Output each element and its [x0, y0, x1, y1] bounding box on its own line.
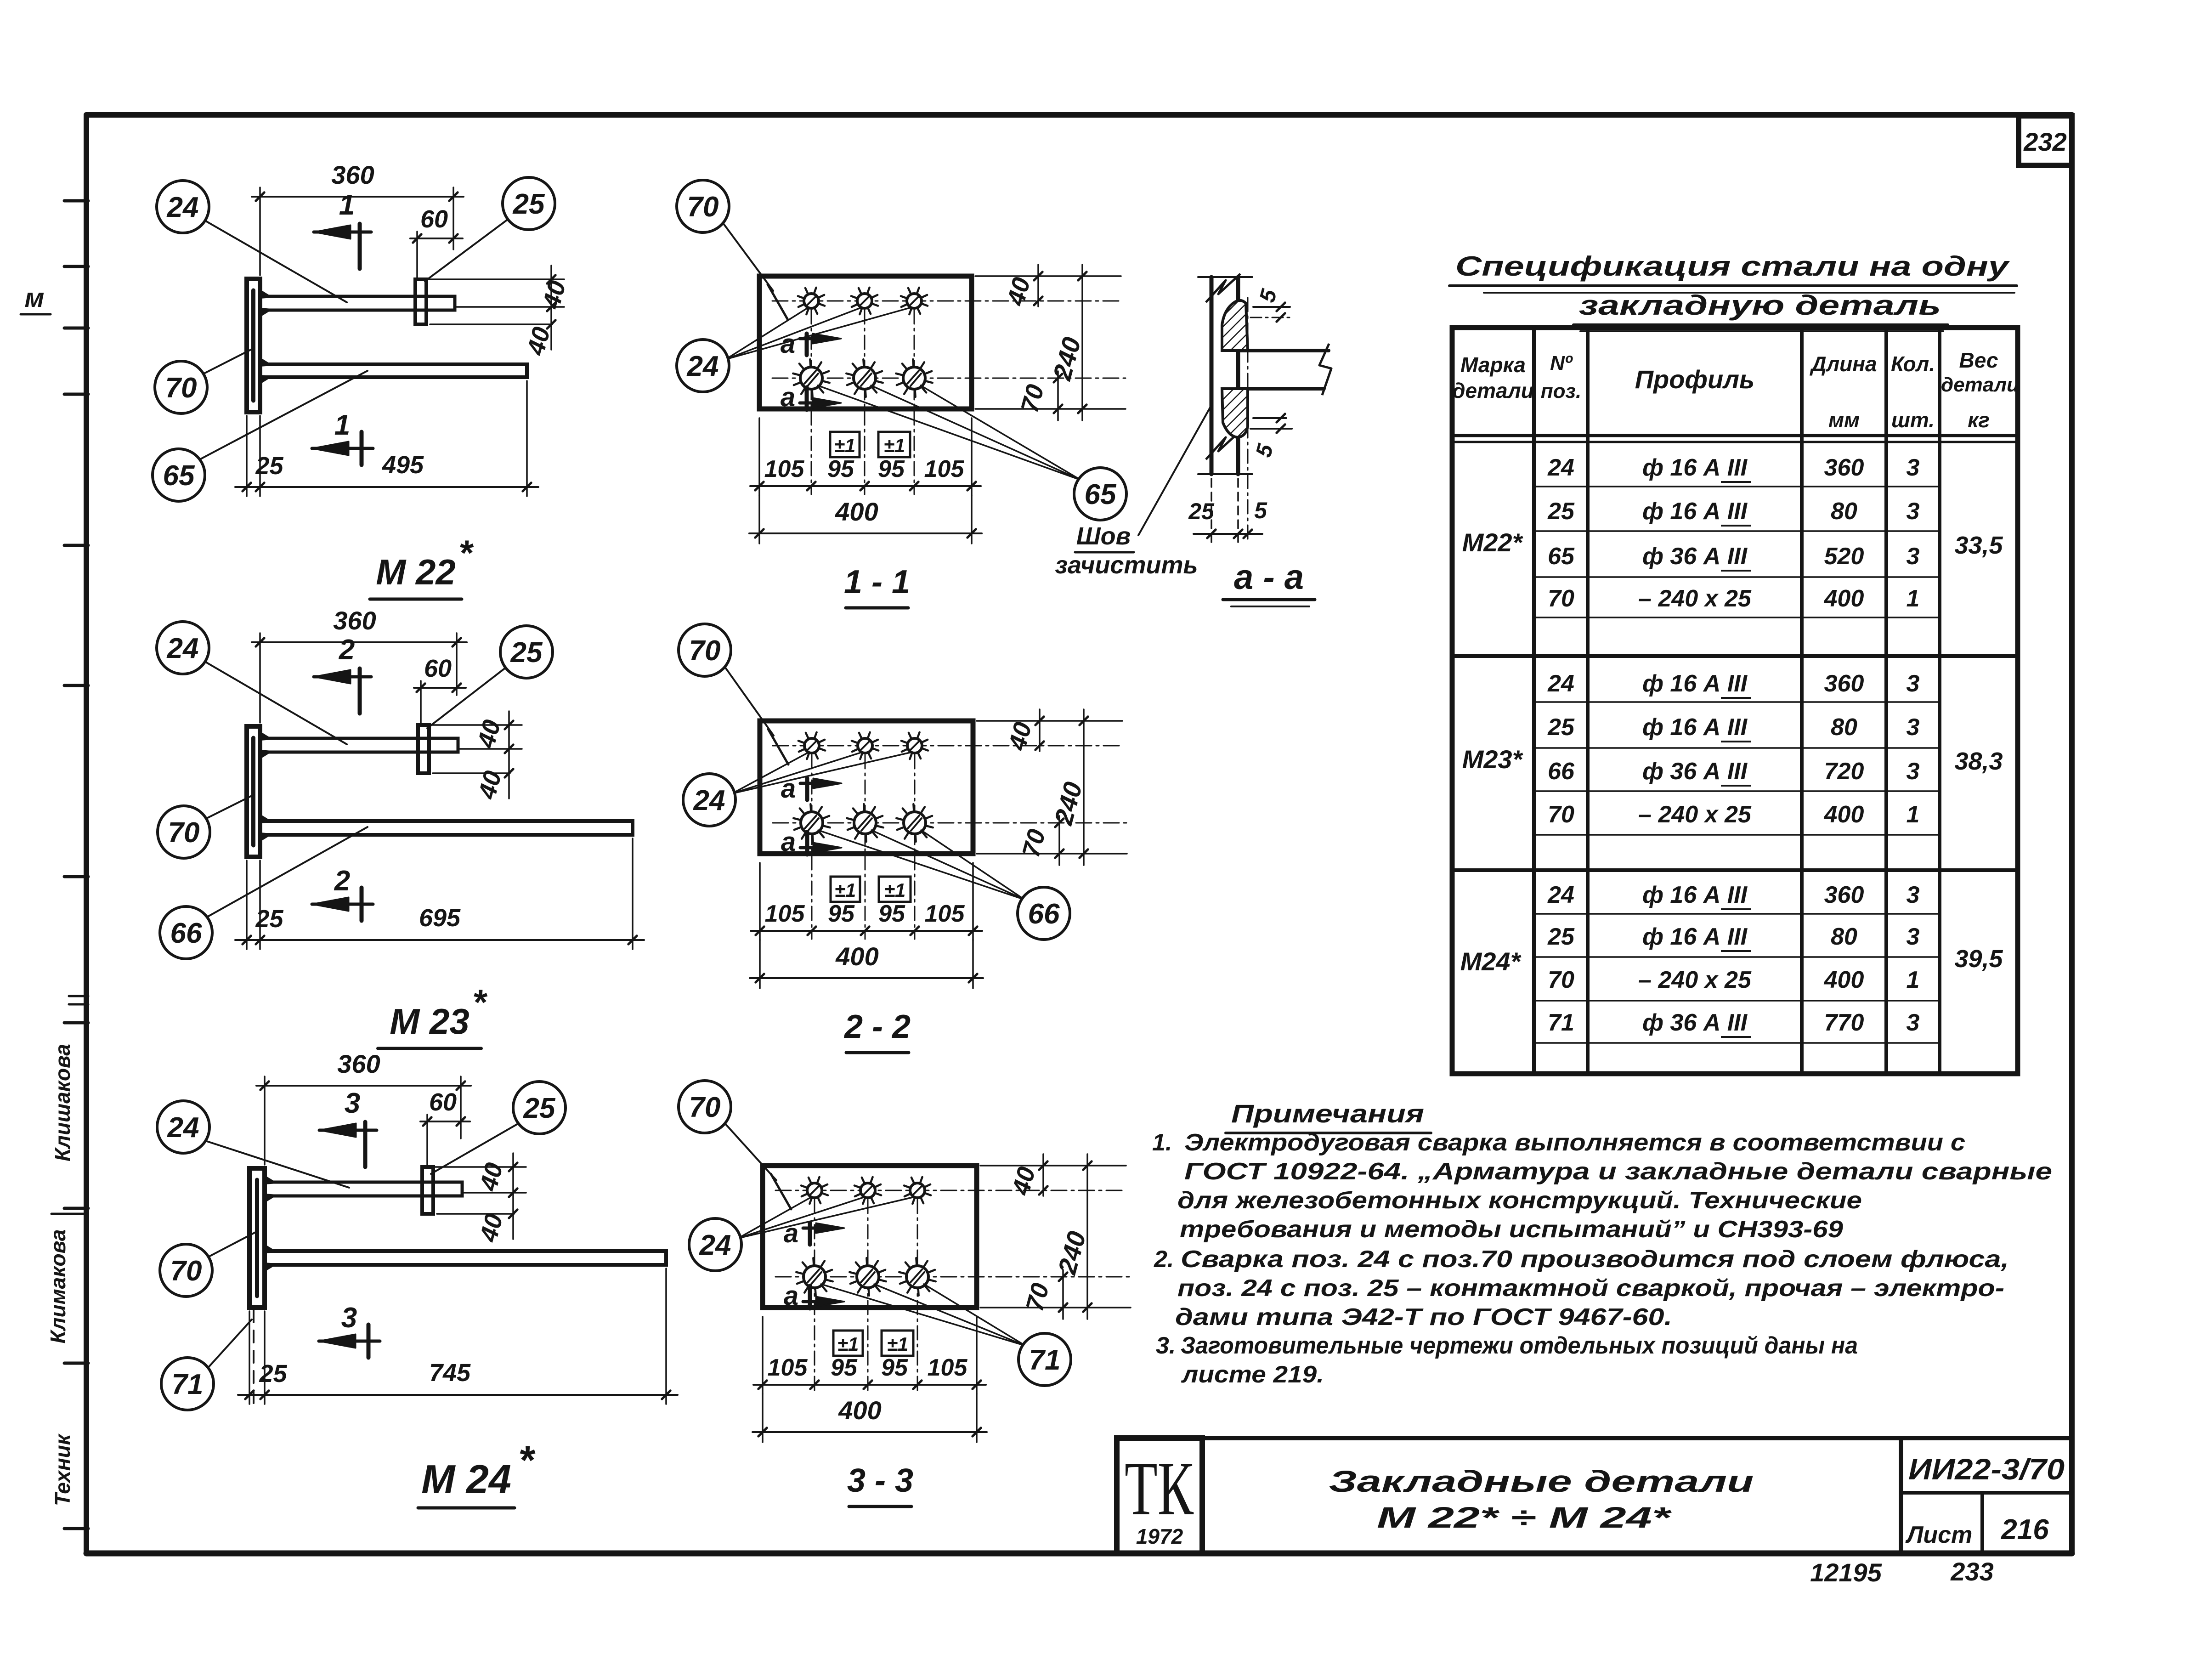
leaders (2-2) — [724, 666, 774, 736]
svg-text:±1: ±1 — [837, 1333, 859, 1355]
svg-text:±1: ±1 — [887, 1333, 908, 1355]
balloon 70 — [679, 624, 731, 676]
svg-text:24: 24 — [1547, 670, 1574, 697]
svg-text:25: 25 — [255, 905, 283, 933]
svg-text:25: 25 — [255, 452, 283, 480]
svg-text:2: 2 — [339, 634, 355, 666]
anchor bar 24 (M23*) — [260, 738, 458, 752]
svg-text:1: 1 — [1907, 967, 1920, 993]
table group separators — [1452, 654, 2018, 658]
svg-text:3: 3 — [345, 1087, 360, 1119]
svg-text:80: 80 — [1831, 498, 1857, 525]
svg-text:33,5: 33,5 — [1954, 532, 2003, 559]
svg-text:дами типа Э42-Т по ГОСТ 9467-6: дами типа Э42-Т по ГОСТ 9467-60. — [1175, 1304, 1672, 1331]
balloon 71 — [161, 1358, 214, 1410]
svg-text:12195: 12195 — [1810, 1558, 1882, 1587]
weld lower (a-a) — [1222, 389, 1248, 437]
svg-text:М 22* ÷ М 24*: М 22* ÷ М 24* — [1377, 1501, 1672, 1534]
dimension 400 (3-3) — [762, 1394, 764, 1442]
base plate 70 outline (3-3) — [763, 1166, 977, 1308]
svg-text:65: 65 — [1085, 479, 1117, 510]
svg-text:95: 95 — [881, 1354, 908, 1381]
svg-text:25: 25 — [1547, 714, 1575, 741]
balloon 24 — [157, 1101, 209, 1153]
left margin ticks — [64, 199, 88, 203]
hidden anchor 71 dashed line (M24) — [253, 1310, 255, 1404]
svg-text:70: 70 — [689, 1092, 721, 1123]
balloon 66 — [1018, 887, 1070, 940]
small plate 25 (M24*) — [422, 1167, 433, 1214]
svg-text:Шов: Шов — [1076, 522, 1131, 550]
plate 70 (M24*) — [249, 1168, 265, 1308]
anchor spots bottom row (2-2) — [801, 812, 823, 834]
svg-text:±1: ±1 — [884, 879, 905, 901]
svg-text:закладную деталь: закладную деталь — [1579, 290, 1941, 321]
svg-text:105: 105 — [928, 1354, 968, 1381]
dimension 360 (M23*) — [259, 633, 261, 723]
svg-text:38,3: 38,3 — [1954, 748, 2003, 775]
anchor bar 24 (M22*) — [260, 296, 455, 310]
balloon 24 — [677, 340, 729, 392]
svg-text:Вес: Вес — [1959, 348, 1998, 372]
svg-text:зачистить: зачистить — [1055, 551, 1198, 579]
svg-text:кг: кг — [1968, 408, 1990, 432]
svg-text:24: 24 — [167, 633, 199, 664]
svg-text:70: 70 — [170, 1255, 202, 1287]
svg-text:детали: детали — [1452, 379, 1534, 402]
signature separator — [51, 1213, 86, 1215]
svg-text:360: 360 — [1824, 882, 1864, 908]
svg-text:5: 5 — [1254, 498, 1267, 523]
svg-text:М23*: М23* — [1462, 745, 1523, 774]
svg-text:216: 216 — [2001, 1514, 2049, 1546]
svg-text:695: 695 — [419, 904, 461, 932]
svg-text:3: 3 — [1907, 882, 1920, 908]
svg-text:Спецификация стали на одну: Спецификация стали на одну — [1455, 251, 2010, 282]
svg-text:ИИ22-3/70: ИИ22-3/70 — [1908, 1453, 2065, 1486]
svg-text:М 23: М 23 — [390, 1001, 469, 1042]
svg-text:80: 80 — [1831, 714, 1857, 741]
svg-text:Длина: Длина — [1809, 352, 1877, 376]
svg-text:1: 1 — [339, 189, 355, 221]
title block dividers — [1899, 1438, 1903, 1553]
svg-text:3: 3 — [1907, 923, 1920, 950]
svg-text:Кол.: Кол. — [1891, 352, 1935, 376]
svg-text:71: 71 — [172, 1369, 204, 1400]
table thin row lines — [1534, 486, 1940, 487]
svg-text:400: 400 — [1824, 801, 1864, 828]
svg-text:25: 25 — [1547, 923, 1575, 950]
centerlines (3-3) — [775, 1190, 1126, 1191]
leaders (3-3) — [724, 1122, 776, 1180]
anchor spots bottom row (1-1) — [800, 367, 822, 389]
svg-text:а - а: а - а — [1234, 558, 1304, 597]
svg-text:±1: ±1 — [834, 435, 855, 456]
svg-text:a: a — [784, 1281, 798, 1311]
plate 70 (M23*) — [247, 726, 260, 857]
sheet number box 232 — [2019, 116, 2072, 165]
svg-text:ГОСТ 10922-64. „Арматура и зак: ГОСТ 10922-64. „Арматура и закладные дет… — [1184, 1158, 2052, 1185]
svg-text:95: 95 — [878, 900, 905, 927]
svg-text:25: 25 — [523, 1093, 556, 1124]
base plate 70 outline (1-1) — [759, 276, 972, 409]
svg-text:3: 3 — [1907, 758, 1920, 785]
plate edges (a-a) — [1210, 277, 1214, 474]
svg-text:ф 36 А III: ф 36 А III — [1642, 1009, 1748, 1036]
svg-text:400: 400 — [1824, 967, 1864, 993]
svg-text:– 240 x 25: – 240 x 25 — [1638, 585, 1752, 612]
svg-text:*: * — [458, 532, 474, 573]
svg-text:95: 95 — [878, 456, 905, 482]
anchor spots pos 24 (1-1) — [804, 294, 819, 308]
svg-text:65: 65 — [1548, 543, 1575, 570]
svg-text:М24*: М24* — [1460, 947, 1522, 976]
weld face dash line (a-a) — [1247, 298, 1249, 542]
svg-text:2.: 2. — [1154, 1246, 1174, 1273]
anchor spots pos 24 (2-2) — [804, 738, 819, 753]
svg-text:24: 24 — [687, 351, 719, 382]
dimensions 105/95/95/105 (1-1) — [758, 418, 760, 495]
dimensions 40/70/240 (3-3) — [980, 1165, 1126, 1167]
dimensions 25/5 (a-a) — [1211, 479, 1212, 543]
svg-text:– 240 x 25: – 240 x 25 — [1638, 967, 1752, 993]
dimensions 40/70/240 (2-2) — [977, 720, 1122, 722]
leader lines (M22*) — [205, 221, 347, 302]
balloon 25 — [500, 626, 553, 678]
svg-text:a: a — [781, 382, 795, 412]
svg-text:±1: ±1 — [835, 879, 856, 901]
svg-text:360: 360 — [337, 1049, 380, 1078]
centerlines (1-1) — [772, 300, 1121, 302]
margin mark || — [69, 995, 88, 997]
svg-text:1: 1 — [1907, 585, 1920, 612]
svg-text:400: 400 — [835, 497, 878, 526]
svg-text:770: 770 — [1824, 1009, 1864, 1036]
balloon 70 — [158, 806, 210, 858]
dimensions 40/40 (M22*) — [428, 278, 564, 280]
svg-text:требования и методы испытаний”: требования и методы испытаний” и СН393-6… — [1180, 1216, 1843, 1243]
svg-text:400: 400 — [1824, 585, 1864, 612]
dimension 360 (M22*) — [259, 187, 261, 275]
svg-text:95: 95 — [831, 1354, 858, 1381]
svg-text:400: 400 — [835, 942, 878, 971]
svg-text:ТК: ТК — [1125, 1446, 1194, 1531]
leader lines (M23*) — [205, 662, 347, 744]
svg-text:105: 105 — [768, 1354, 808, 1381]
svg-text:39,5: 39,5 — [1954, 945, 2003, 973]
svg-text:24: 24 — [1547, 454, 1574, 481]
svg-text:71: 71 — [1029, 1344, 1061, 1376]
svg-text:232: 232 — [2023, 127, 2066, 156]
dimension 25/745 (M24*) — [249, 1311, 250, 1404]
svg-text:М 24: М 24 — [421, 1456, 511, 1502]
svg-text:3: 3 — [1907, 498, 1920, 525]
svg-text:66: 66 — [1548, 758, 1575, 785]
svg-text:70: 70 — [168, 817, 200, 849]
svg-text:25: 25 — [513, 188, 545, 220]
balloon 24 — [157, 622, 209, 674]
leaders (1-1) — [722, 222, 773, 291]
svg-text:м: м — [25, 283, 45, 313]
svg-text:360: 360 — [333, 606, 376, 635]
svg-text:листе 219.: листе 219. — [1181, 1361, 1324, 1388]
anchor spots pos 24 (3-3) — [807, 1183, 822, 1198]
svg-text:Профиль: Профиль — [1635, 365, 1755, 394]
svg-text:1: 1 — [334, 409, 350, 441]
svg-text:ф 16 А III: ф 16 А III — [1642, 882, 1748, 908]
svg-text:66: 66 — [170, 917, 202, 949]
svg-text:24: 24 — [693, 785, 725, 816]
leader shov (a-a) — [1138, 404, 1212, 535]
dimension 60 (M23*) — [420, 681, 422, 724]
svg-text:М 22: М 22 — [376, 552, 455, 592]
table outer frame — [1452, 328, 2018, 1074]
dimension 60 (M24*) — [426, 1115, 428, 1166]
base plate 70 outline (2-2) — [760, 721, 973, 854]
svg-text:Электродуговая сварка выполняе: Электродуговая сварка выполняется в соот… — [1184, 1129, 1965, 1156]
svg-text:ф 16 А III: ф 16 А III — [1642, 454, 1748, 481]
dimensions 105/95/95/105 (3-3) — [762, 1317, 764, 1394]
svg-text:105: 105 — [765, 900, 805, 927]
balloon 24 — [689, 1218, 741, 1271]
balloon 65 — [153, 449, 205, 501]
svg-text:М22*: М22* — [1462, 528, 1523, 557]
svg-text:24: 24 — [167, 192, 199, 223]
svg-text:поз.: поз. — [1541, 380, 1581, 402]
svg-text:a: a — [781, 774, 796, 804]
dimension 400 (2-2) — [759, 940, 761, 988]
svg-text:2 - 2: 2 - 2 — [843, 1008, 911, 1045]
svg-text:360: 360 — [331, 160, 374, 189]
svg-text:360: 360 — [1824, 670, 1864, 697]
svg-text:ф 16 А III: ф 16 А III — [1642, 923, 1748, 950]
balloon 70 — [155, 361, 207, 413]
svg-text:745: 745 — [429, 1359, 471, 1387]
dimensions 40/40 (M24*) — [435, 1166, 526, 1168]
svg-text:95: 95 — [827, 456, 854, 482]
svg-text:1 - 1: 1 - 1 — [844, 564, 910, 600]
weld upper (a-a) — [1222, 300, 1248, 351]
bottom anchor bar (M23*) — [260, 821, 633, 835]
svg-text:Климакова: Климакова — [46, 1229, 70, 1344]
svg-text:3: 3 — [1907, 543, 1920, 570]
svg-text:a: a — [781, 827, 796, 857]
svg-text:*: * — [518, 1437, 536, 1483]
svg-text:– 240 x 25: – 240 x 25 — [1638, 801, 1752, 828]
title block top line — [1116, 1436, 2072, 1440]
svg-text:66: 66 — [1028, 898, 1060, 930]
svg-text:70: 70 — [1548, 585, 1574, 612]
svg-text:105: 105 — [924, 456, 965, 482]
svg-text:ф 36 А III: ф 36 А III — [1642, 543, 1748, 570]
svg-text:шт.: шт. — [1891, 408, 1935, 432]
table column lines — [1532, 328, 1536, 1074]
svg-text:Закладные детали: Закладные детали — [1329, 1464, 1754, 1498]
anchor bar 24 (M24*) — [265, 1182, 462, 1196]
svg-text:70: 70 — [687, 191, 719, 223]
svg-text:400: 400 — [838, 1396, 881, 1425]
balloon 70 — [160, 1244, 212, 1297]
svg-text:1: 1 — [1907, 801, 1920, 828]
svg-text:60: 60 — [429, 1088, 457, 1116]
balloon 65 — [1074, 468, 1126, 520]
balloon 70 — [677, 180, 729, 232]
dimensions 40/70/240 (1-1) — [975, 275, 1121, 277]
tolerance boxes ±1 (3-3) — [833, 1331, 863, 1356]
balloon 24 — [157, 181, 209, 233]
svg-text:Сварка поз. 24 с поз.70 произв: Сварка поз. 24 с поз.70 производится под… — [1181, 1246, 2009, 1273]
svg-text:ф 16 А III: ф 16 А III — [1642, 670, 1748, 697]
tolerance boxes ±1 (2-2) — [831, 877, 860, 902]
balloon 66 — [160, 906, 212, 959]
dimension 5 top (a-a) — [1253, 306, 1290, 308]
svg-text:3: 3 — [1907, 1009, 1920, 1036]
tolerance boxes ±1 (1-1) — [830, 432, 860, 457]
svg-text:65: 65 — [163, 460, 195, 492]
svg-text:ф 16 А III: ф 16 А III — [1642, 714, 1748, 741]
svg-text:70: 70 — [1548, 967, 1574, 993]
svg-text:3: 3 — [341, 1302, 357, 1334]
balloon 71 — [1018, 1333, 1071, 1386]
dimension 25/695 (M23*) — [246, 861, 248, 949]
balloon 24 — [683, 774, 735, 826]
svg-text:24: 24 — [167, 1112, 199, 1144]
svg-text:3: 3 — [1907, 670, 1920, 697]
svg-text:105: 105 — [764, 456, 805, 482]
plate 70 (M22*) — [247, 279, 260, 412]
svg-text:*: * — [472, 982, 488, 1022]
svg-text:60: 60 — [424, 655, 452, 682]
break marks (a-a plate) — [1206, 274, 1240, 302]
svg-text:360: 360 — [1824, 454, 1864, 481]
dimension 60 (M22*) — [416, 232, 418, 278]
svg-text:Лист: Лист — [1905, 1522, 1973, 1548]
balloon 25 — [503, 177, 555, 230]
svg-text:60: 60 — [420, 205, 448, 233]
svg-text:720: 720 — [1824, 758, 1864, 785]
dimensions 40/40 (M23*) — [431, 724, 522, 726]
svg-text:для железобетонных конструкций: для железобетонных конструкций. Техничес… — [1177, 1187, 1862, 1214]
svg-text:Клишакова: Клишакова — [51, 1044, 74, 1161]
centerlines (2-2) — [773, 745, 1122, 747]
svg-text:25: 25 — [259, 1360, 287, 1387]
drawing frame — [86, 112, 2072, 118]
balloon 70 — [679, 1081, 731, 1133]
svg-text:520: 520 — [1824, 543, 1864, 570]
svg-text:233: 233 — [1950, 1557, 1993, 1586]
dimension 360 (M24*) — [264, 1076, 266, 1165]
svg-text:1.: 1. — [1152, 1129, 1172, 1156]
bottom anchor bar (M24*) — [265, 1251, 666, 1265]
svg-text:24: 24 — [699, 1229, 731, 1261]
svg-text:71: 71 — [1548, 1009, 1574, 1036]
small plate 25 (M22*) — [415, 279, 426, 324]
dimension 400 (1-1) — [758, 495, 760, 544]
svg-text:2: 2 — [334, 865, 350, 897]
svg-text:80: 80 — [1831, 923, 1857, 950]
svg-text:105: 105 — [925, 900, 965, 927]
svg-text:95: 95 — [828, 900, 855, 927]
svg-text:3: 3 — [1907, 454, 1920, 481]
svg-text:24: 24 — [1547, 882, 1574, 908]
svg-text:25: 25 — [1547, 498, 1575, 525]
svg-text:70: 70 — [1548, 801, 1574, 828]
svg-text:25: 25 — [1188, 498, 1215, 524]
table header separator — [1452, 434, 2018, 437]
small plate 25 (M23*) — [418, 725, 429, 773]
bottom anchor bar (M22*) — [260, 364, 527, 377]
anchor bar through plate (a-a) — [1238, 349, 1329, 352]
balloon 25 — [513, 1082, 566, 1134]
svg-text:70: 70 — [165, 372, 197, 404]
svg-text:Марка: Марка — [1460, 353, 1526, 377]
svg-text:Nº: Nº — [1550, 352, 1573, 374]
svg-text:70: 70 — [689, 635, 721, 667]
svg-text:мм: мм — [1828, 408, 1860, 432]
TK logo box — [1117, 1438, 1202, 1553]
anchor spots bottom row (3-3) — [803, 1266, 826, 1288]
svg-text:детали: детали — [1941, 374, 2019, 396]
svg-text:25: 25 — [510, 637, 543, 668]
svg-text:Примечания: Примечания — [1231, 1099, 1424, 1128]
svg-text:ф 36 А III: ф 36 А III — [1642, 758, 1748, 785]
svg-text:1972: 1972 — [1136, 1524, 1183, 1548]
dimension 25/495 (M22*) — [246, 416, 248, 496]
svg-text:ф 16 А III: ф 16 А III — [1642, 498, 1748, 525]
svg-text:Заготовительные чертежи отдель: Заготовительные чертежи отдельных позици… — [1181, 1332, 1858, 1359]
leader lines (M24*) — [205, 1141, 349, 1188]
svg-text:495: 495 — [382, 451, 424, 479]
svg-text:3 - 3: 3 - 3 — [847, 1462, 913, 1499]
dimension 5 bottom (a-a) — [1253, 417, 1286, 419]
svg-text:3.: 3. — [1156, 1332, 1176, 1359]
svg-text:±1: ±1 — [884, 435, 905, 456]
svg-text:Техник: Техник — [51, 1433, 74, 1506]
dimensions 105/95/95/105 (2-2) — [759, 863, 761, 940]
svg-text:поз. 24 с поз. 25 – контактной: поз. 24 с поз. 25 – контактной сваркой, … — [1177, 1275, 2004, 1302]
svg-text:3: 3 — [1907, 714, 1920, 741]
